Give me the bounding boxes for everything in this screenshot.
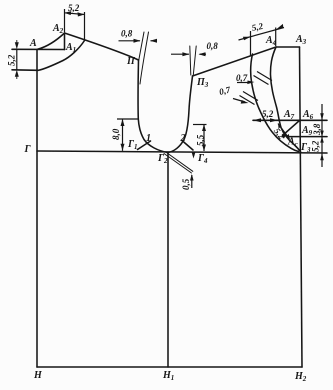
wire bottom hem line Н-Н₂ [37,366,302,368]
svg-text:5,2: 5,2 [68,3,80,13]
wire line А₉ horizontal [287,136,327,138]
svg-text:5,2: 5,2 [7,54,17,66]
svg-text:5,2: 5,2 [311,140,321,152]
front neckline outer curve [251,54,299,152]
front neckline inner curve А₄-Г₃ [270,47,301,153]
dimension 0,5 notch depth below Г₂ [190,174,194,188]
dimension chain 3,8 and 5,2 right column [320,104,324,167]
wire chest line Г [37,151,327,153]
dimension 0,7 lower with hatch marks [233,92,258,105]
svg-text:А: А [29,38,37,49]
dimension 5,2 horizontal at А₇ [253,118,278,122]
back neckline curve А₂-А [38,33,65,49]
back scoop curve from shoulder to left line [38,41,85,71]
svg-text:5,5: 5,5 [196,134,206,146]
dimension 5,2 back neck depth (left vertical) [15,40,19,79]
dimension 8,0 armhole depth left [117,119,138,151]
wire left lower extension line [12,69,38,72]
dimension 5,5 armhole right [193,125,207,152]
wire top back line А-А₁ [12,48,65,50]
svg-text:0,5: 0,5 [181,178,191,190]
dimension 5,2 front neck width (top right, slanted) [239,24,285,56]
wire armhole edge extension above П [139,32,144,60]
bisector line Г₁-1 [138,141,151,150]
svg-text:Н: Н [33,370,43,381]
wire line А₇-А₆ horizontal [253,119,327,121]
dimension 0,8 at П [119,39,158,43]
svg-text:1: 1 [146,133,151,144]
wire back vertical line А-Н [36,50,38,368]
arrow marker at Г₄ [192,152,196,159]
svg-text:0,8: 0,8 [207,41,219,51]
svg-text:8,0: 8,0 [111,128,121,140]
svg-text:2: 2 [180,133,186,144]
svg-text:П: П [126,56,136,67]
bisector line Г₄-2 [182,141,193,151]
wire right vertical line А₃-Н₂ [300,47,303,367]
diagonal line А₆ to Ас [283,121,300,136]
double diagonal notch at Г₂ [164,153,193,174]
front shoulder line П₃-А₄ [193,47,277,76]
dimension 0,7 upper with hatch marks [237,72,272,85]
wire top front line А₄-А₃ [276,46,300,48]
wire guide line at П [140,32,149,84]
wire center vertical line Г₂-Н₁ [167,153,169,368]
dimension 0,8 at П₃ [171,52,206,56]
armhole curve П-Г₂-П₃ [138,60,192,153]
svg-text:5,2: 5,2 [262,109,274,119]
svg-text:Г: Г [24,144,32,155]
svg-text:0,7: 0,7 [236,73,248,83]
wire А₂-А₁ vertical segment [64,33,66,50]
dimension 5,2 diagonal to Ас [278,124,290,140]
dimension 5,2 back neck width (top left) [64,9,84,40]
svg-text:3,8: 3,8 [312,123,322,136]
back shoulder line А₂-П [65,33,139,60]
wire extension lines above П₃ [190,46,191,75]
svg-text:0,8: 0,8 [121,29,133,39]
